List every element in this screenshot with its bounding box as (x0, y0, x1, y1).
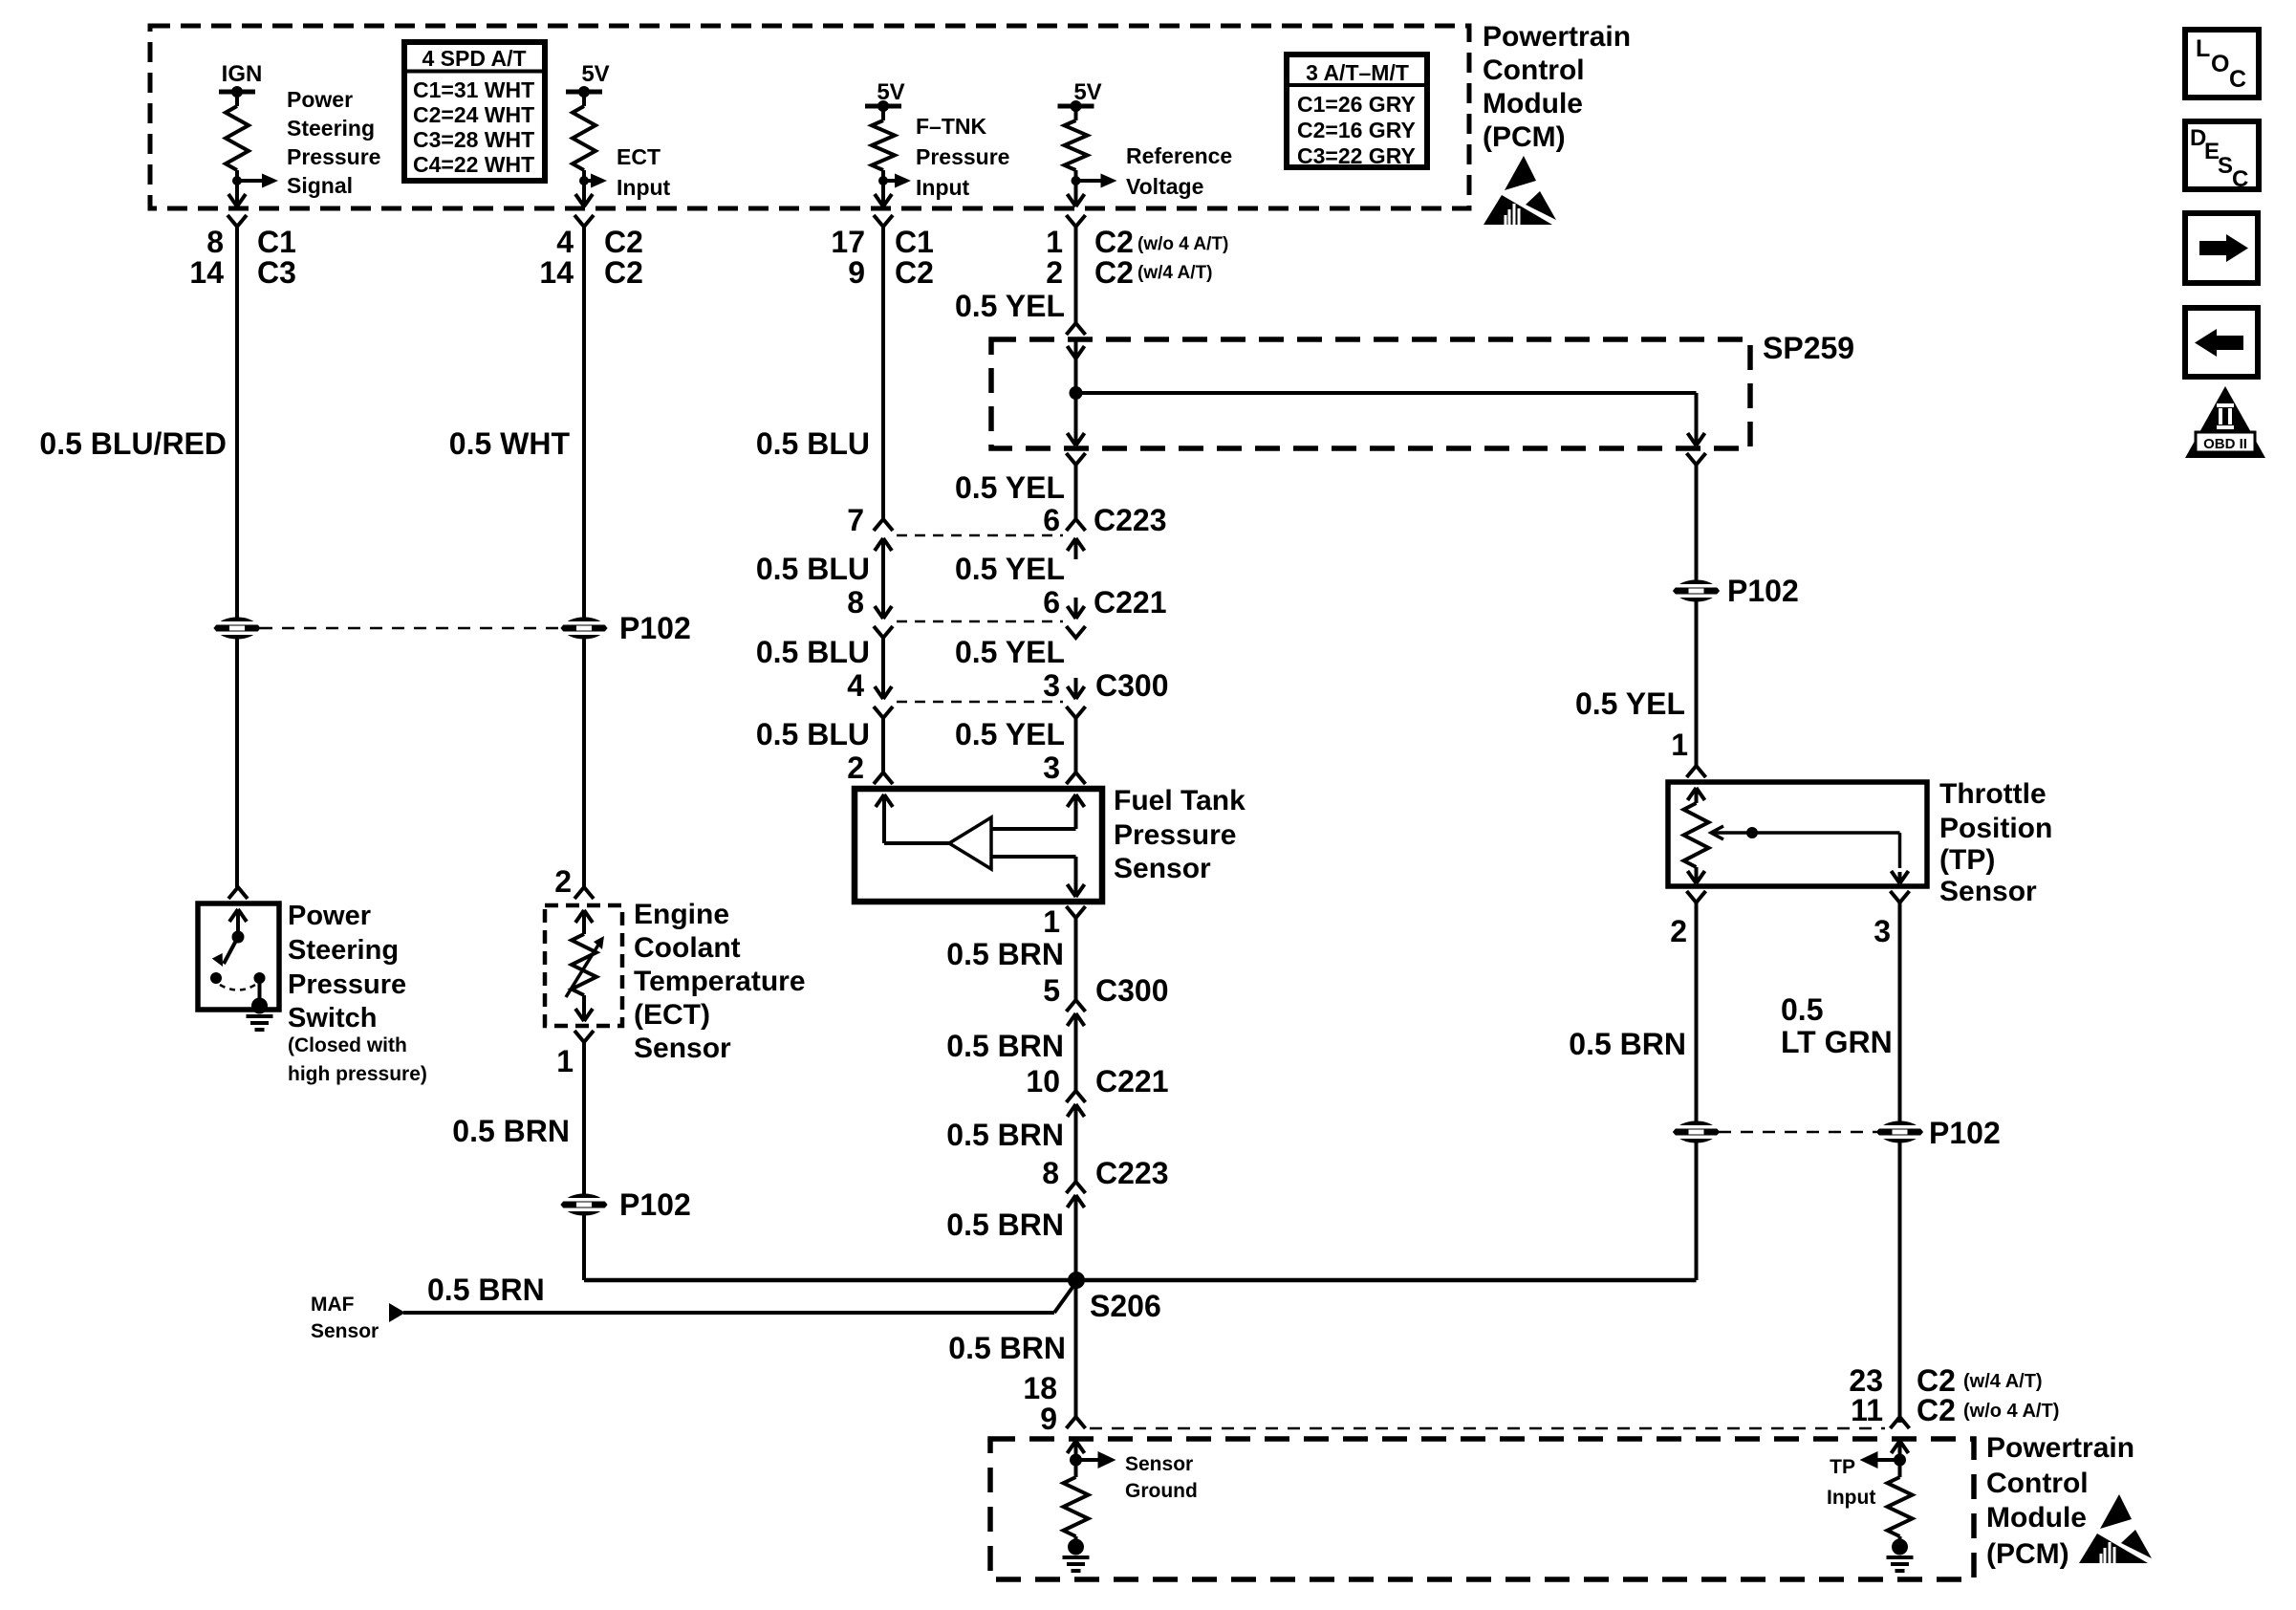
svg-text:Sensor: Sensor (634, 1033, 731, 1064)
wire S206 horizontal bus (584, 1278, 1697, 1283)
TP wiper arrow (1711, 826, 1723, 839)
resistor sensor ground leg (1074, 1460, 1078, 1477)
svg-text:0.5 YEL: 0.5 YEL (955, 470, 1065, 505)
svg-text:0.5 YEL: 0.5 YEL (1575, 686, 1685, 721)
connector C300 crossing (W3/W4) (897, 701, 1063, 704)
svg-text:Powertrain: Powertrain (1483, 21, 1631, 53)
node TP input junction (1894, 1454, 1906, 1467)
connector C223 crossing (center wire) (1067, 1182, 1086, 1193)
label Sensor Ground (1125, 1453, 1198, 1502)
svg-text:1: 1 (556, 1044, 574, 1078)
wire W3 C221 to C300 (881, 638, 885, 699)
label F-TNK Pressure Input (916, 114, 1009, 200)
svg-text:C2: C2 (895, 255, 934, 290)
label Power Steering Pressure Switch (288, 901, 406, 1033)
svg-text:Signal: Signal (287, 173, 353, 198)
svg-text:0.5: 0.5 (1781, 992, 1823, 1027)
connector chevron above PSP switch (228, 887, 248, 899)
svg-text:5: 5 (1043, 973, 1060, 1008)
svg-text:5V: 5V (877, 79, 904, 105)
svg-text:C221: C221 (1094, 585, 1167, 620)
svg-text:0.5 BLU: 0.5 BLU (756, 552, 870, 586)
wire S206 to bottom PCM (sensor ground) (1074, 1280, 1078, 1417)
resistor PCM load W1 PSP (235, 92, 239, 106)
wire W3 C223 to C221 (881, 559, 885, 619)
svg-text:C: C (2229, 66, 2246, 93)
svg-text:2: 2 (847, 751, 864, 785)
svg-text:Reference: Reference (1126, 143, 1232, 168)
arrow W3 F-TNK signal (883, 179, 895, 183)
svg-text:9: 9 (1040, 1402, 1057, 1436)
svg-text:Module: Module (1986, 1502, 2087, 1534)
svg-text:Input: Input (617, 175, 671, 200)
svg-text:1: 1 (1671, 728, 1688, 762)
connector pin arrow W2 ECT at PCM edge (575, 194, 593, 207)
svg-text:C4=22 WHT: C4=22 WHT (413, 152, 534, 177)
wire SP259 to P102 (right branch) (1695, 465, 1699, 580)
svg-text:Position: Position (1939, 813, 2052, 844)
wire W3 F-TNK to PCM edge (881, 181, 885, 196)
connector chevrons above FTP sensor (874, 772, 893, 784)
svg-text:Sensor: Sensor (1114, 853, 1211, 884)
node W2 ECT supply bar (566, 90, 602, 95)
svg-text:C2: C2 (1917, 1393, 1956, 1427)
wire C221 to C223 (center) (1074, 1125, 1078, 1185)
svg-text:Switch: Switch (288, 1003, 377, 1033)
connector chevron above SP259 (1067, 323, 1086, 335)
icon box arrow left (2185, 308, 2258, 377)
svg-text:0.5 BRN: 0.5 BRN (452, 1114, 570, 1148)
svg-text:high pressure): high pressure) (288, 1063, 427, 1085)
wire W2 ECT to PCM edge (582, 181, 586, 196)
ground TP input leg (1898, 1536, 1902, 1539)
ECT arrow top (575, 910, 593, 923)
svg-text:Control: Control (1483, 54, 1585, 86)
connector chevron W4 Reference below PCM (1067, 215, 1086, 227)
svg-text:ECT: ECT (617, 144, 661, 169)
svg-text:Powertrain: Powertrain (1986, 1432, 2134, 1464)
connector chevron below ECT sensor (574, 1031, 594, 1042)
svg-text:9: 9 (848, 255, 865, 290)
arrow W2 ECT signal (584, 179, 591, 183)
svg-text:C1=31 WHT: C1=31 WHT (413, 77, 534, 102)
svg-text:2: 2 (1670, 914, 1687, 948)
svg-text:Power: Power (287, 87, 353, 112)
svg-text:14: 14 (539, 255, 574, 290)
svg-text:14: 14 (189, 255, 224, 290)
svg-text:Steering: Steering (287, 116, 375, 141)
svg-text:C300: C300 (1095, 973, 1169, 1008)
wire W4 Reference to PCM edge (1074, 181, 1078, 196)
connector chevron above TP sensor (1687, 766, 1706, 777)
svg-text:C3=22 GRY: C3=22 GRY (1297, 143, 1416, 168)
TP input leg arrow (1892, 1441, 1909, 1453)
PSP switch right contact (254, 972, 266, 984)
svg-text:C3: C3 (257, 255, 296, 290)
ECT arrow bottom (582, 995, 586, 1021)
connector pin arrow W3 F-TNK at PCM edge (875, 194, 892, 207)
svg-text:C: C (2232, 166, 2248, 192)
node W2 ECT junction (579, 176, 589, 185)
wire TP pin2 P102 to S206 line (1695, 1142, 1699, 1280)
PSP switch pivot contact (210, 972, 222, 984)
wire P102 to TP sensor pin 1 (1695, 601, 1699, 766)
arrow into SP259 (1074, 341, 1078, 346)
wire FTP pin1 down (1074, 918, 1078, 1003)
svg-text:Pressure: Pressure (916, 144, 1009, 169)
svg-text:SP259: SP259 (1763, 331, 1854, 365)
svg-text:4: 4 (556, 225, 574, 259)
svg-text:5V: 5V (1073, 79, 1101, 105)
svg-text:8: 8 (847, 585, 864, 620)
svg-text:1: 1 (1046, 225, 1063, 259)
svg-text:C2: C2 (604, 225, 643, 259)
connector C221 crossing (W3/W4) (897, 620, 1063, 623)
arrow W1 PSP signal (237, 179, 262, 183)
wire TP pin3 to P102 (1898, 903, 1902, 1121)
svg-text:0.5 BLU: 0.5 BLU (756, 426, 870, 461)
svg-text:6: 6 (1043, 503, 1060, 537)
connector P102 on TP pin2 wire (1674, 1121, 1720, 1142)
connector pin arrow W1 PSP at PCM edge (228, 194, 246, 207)
node sensor ground junction (1070, 1454, 1082, 1467)
connector chevron below FTP sensor (1067, 906, 1086, 918)
svg-text:5V: 5V (581, 61, 609, 87)
svg-text:0.5 YEL: 0.5 YEL (955, 289, 1065, 323)
wire MAF branch (403, 1311, 1054, 1315)
arrow to Sensor Ground label (1076, 1458, 1099, 1462)
svg-text:C1=26 GRY: C1=26 GRY (1297, 92, 1416, 117)
TP wiper output wire (1898, 833, 1902, 868)
svg-text:P102: P102 (1727, 574, 1799, 608)
svg-text:Pressure: Pressure (1114, 819, 1236, 851)
svg-text:(PCM): (PCM) (1483, 121, 1566, 153)
svg-text:C221: C221 (1095, 1064, 1169, 1099)
arrow SP259 right branch exit (1688, 424, 1705, 446)
svg-text:Sensor: Sensor (311, 1320, 379, 1342)
Fuel Tank Pressure Sensor box (855, 789, 1102, 902)
svg-text:4: 4 (847, 668, 864, 703)
svg-text:L: L (2196, 35, 2210, 62)
connector box 4 SPD A/T (404, 42, 545, 181)
svg-text:0.5 BLU/RED: 0.5 BLU/RED (39, 426, 227, 461)
svg-text:(w/4 A/T): (w/4 A/T) (1137, 263, 1212, 283)
PSP switch travel arc (dashed) (220, 985, 255, 990)
svg-text:17: 17 (831, 225, 865, 259)
svg-text:(w/o 4 A/T): (w/o 4 A/T) (1137, 234, 1228, 254)
wire W4 PCM to SP259 (1074, 225, 1078, 323)
resistor PCM load W2 ECT (582, 92, 586, 106)
label (Closed with high pressure) (288, 1034, 427, 1085)
svg-text:(w/4 A/T): (w/4 A/T) (1963, 1371, 2043, 1392)
svg-text:MAF: MAF (311, 1294, 355, 1316)
svg-text:Voltage: Voltage (1126, 174, 1203, 199)
svg-text:C2=16 GRY: C2=16 GRY (1297, 118, 1416, 142)
label Fuel Tank Pressure Sensor (1114, 785, 1245, 884)
svg-text:4 SPD A/T: 4 SPD A/T (422, 46, 526, 71)
svg-text:0.5 BLU: 0.5 BLU (756, 635, 870, 669)
connector P102 on W1 (214, 618, 260, 639)
arrow W4 Reference signal (1076, 179, 1101, 183)
node W3 F-TNK supply bar (865, 104, 901, 109)
svg-text:Sensor: Sensor (1125, 1453, 1193, 1475)
node S206 splice (1068, 1272, 1085, 1289)
PCM top dashed box (150, 26, 1469, 208)
svg-text:Steering: Steering (288, 935, 399, 966)
svg-text:0.5 BRN: 0.5 BRN (946, 1118, 1064, 1152)
connector chevron above bottom PCM (left) (1067, 1417, 1086, 1428)
svg-text:3 A/T–M/T: 3 A/T–M/T (1306, 60, 1409, 85)
svg-text:(TP): (TP) (1939, 844, 1995, 876)
arrow SP259 left branch exit (1074, 393, 1078, 424)
svg-text:Input: Input (916, 175, 970, 200)
label Power Steering Pressure Signal (287, 87, 380, 198)
icon OBD II triangle (2185, 386, 2265, 458)
svg-text:LT GRN: LT GRN (1781, 1025, 1893, 1059)
resistor ECT sensor element (572, 934, 596, 995)
svg-text:C2: C2 (1094, 225, 1134, 259)
wire W2 P102 to ECT sensor (582, 639, 586, 887)
wire PSP right contact to ground (258, 978, 262, 1002)
connector chevron W3 F-TNK below PCM (874, 215, 893, 227)
svg-text:2: 2 (554, 864, 572, 899)
svg-text:C1: C1 (257, 225, 296, 259)
wire W2 PCM to P102 (582, 225, 586, 618)
svg-text:Input: Input (1827, 1487, 1875, 1509)
svg-text:P102: P102 (1929, 1116, 2001, 1150)
svg-text:0.5 WHT: 0.5 WHT (449, 426, 571, 461)
connector chevron below SP259 (left) (1067, 453, 1086, 465)
svg-text:C223: C223 (1095, 1156, 1169, 1190)
wire W1 P102 to PSP switch (235, 639, 239, 887)
connector C223 crossing (W3/W4) (897, 534, 1063, 537)
svg-text:Coolant: Coolant (634, 932, 741, 964)
wire W2 ECT to P102 lower (582, 1042, 586, 1194)
svg-text:0.5 BLU: 0.5 BLU (756, 717, 870, 751)
svg-text:3: 3 (1043, 751, 1060, 785)
PSP switch top contact (232, 931, 245, 944)
svg-text:F–TNK: F–TNK (916, 114, 987, 139)
svg-text:TP: TP (1830, 1456, 1855, 1478)
svg-text:0.5 YEL: 0.5 YEL (955, 635, 1065, 669)
node W1 PSP junction (232, 176, 242, 185)
svg-text:C223: C223 (1094, 503, 1167, 537)
svg-text:10: 10 (1026, 1064, 1060, 1099)
svg-text:C3=28 WHT: C3=28 WHT (413, 127, 534, 152)
wire W4 SP259 to C223 (1074, 465, 1078, 519)
PCM bottom dashed box (990, 1439, 1974, 1579)
svg-text:Control: Control (1986, 1468, 2089, 1499)
connector P102 on W2 (561, 618, 607, 639)
connector C221 crossing (center wire) (1067, 1091, 1086, 1102)
svg-text:0.5 BRN: 0.5 BRN (427, 1273, 545, 1307)
svg-text:O: O (2211, 51, 2229, 77)
resistor PCM load W3 F-TNK (881, 106, 885, 120)
connector chevron W2 ECT below PCM (574, 215, 594, 227)
svg-text:Sensor: Sensor (1939, 876, 2037, 907)
wire SP259 branch to right (1076, 391, 1697, 395)
label MAF Sensor (311, 1294, 379, 1342)
connector P102 on TP pin3 wire (1877, 1121, 1923, 1142)
svg-text:Pressure: Pressure (287, 144, 380, 169)
svg-text:P102: P102 (619, 1187, 691, 1222)
PSP switch arrow to top contact (229, 909, 247, 922)
node W1 PSP supply bar (219, 90, 255, 95)
arrow MAF sensor (389, 1303, 405, 1322)
icon box DESC (2185, 121, 2259, 189)
connector chevron above ECT sensor (574, 887, 594, 899)
connector chevron below SP259 (right) (1687, 453, 1706, 465)
svg-text:Power: Power (288, 901, 371, 931)
svg-text:1: 1 (1043, 904, 1060, 939)
connector chevron W1 PSP below PCM (227, 215, 247, 227)
svg-text:Throttle: Throttle (1939, 778, 2047, 810)
connector P102 lower on W2 (561, 1194, 607, 1215)
svg-text:0.5 YEL: 0.5 YEL (955, 552, 1065, 586)
svg-text:(w/o 4 A/T): (w/o 4 A/T) (1963, 1401, 2059, 1422)
svg-text:18: 18 (1023, 1371, 1057, 1405)
FTP right inner wires (991, 827, 1076, 831)
thin dashed link P102 pair (TP) (1719, 1131, 1877, 1134)
wire C223 to S206 (1074, 1216, 1078, 1273)
svg-text:0.5 BRN: 0.5 BRN (1569, 1027, 1686, 1061)
wire W1 PCM to P102 (235, 225, 239, 618)
svg-text:Pressure: Pressure (288, 969, 406, 1000)
connector chevrons below TP sensor (1687, 891, 1706, 903)
svg-text:IGN: IGN (222, 61, 263, 87)
svg-text:(ECT): (ECT) (634, 999, 710, 1031)
sensor ground leg arrow (1068, 1441, 1085, 1453)
wire W1 PSP to PCM edge (235, 181, 239, 196)
label Reference Voltage (1126, 143, 1232, 199)
ESD symbol top PCM (1484, 156, 1556, 225)
label TP Input (1827, 1456, 1875, 1509)
svg-text:C2=24 WHT: C2=24 WHT (413, 102, 534, 127)
svg-text:8: 8 (1042, 1156, 1059, 1190)
svg-text:Temperature: Temperature (634, 966, 806, 997)
connector box 3 A/T-M/T (1287, 54, 1427, 167)
node W4 Reference supply bar (1058, 104, 1094, 109)
svg-text:6: 6 (1043, 585, 1060, 620)
wire TP pin2 to P102 (1695, 903, 1699, 1121)
label 0.5 LT GRN (1781, 992, 1893, 1059)
connector pin arrow W4 Reference at PCM edge (1068, 194, 1085, 207)
svg-text:2: 2 (1046, 255, 1063, 290)
node W3 F-TNK junction (878, 176, 888, 185)
svg-text:Engine: Engine (634, 899, 729, 930)
TP resistor leg (1688, 788, 1705, 800)
FTP left inner wire (876, 794, 893, 807)
svg-text:C2: C2 (1094, 255, 1134, 290)
resistor TP input leg (1898, 1460, 1902, 1477)
svg-text:C300: C300 (1095, 668, 1169, 703)
svg-text:(Closed with: (Closed with (288, 1034, 407, 1056)
svg-text:Ground: Ground (1125, 1480, 1198, 1502)
svg-text:0.5 BRN: 0.5 BRN (946, 1207, 1064, 1242)
PSP switch blade (224, 937, 238, 964)
wire W4 C300 to FTP sensor (1074, 718, 1078, 772)
wire TP pin3 P102 to PCM (1898, 1142, 1902, 1423)
svg-text:Fuel Tank: Fuel Tank (1114, 785, 1245, 816)
label Powertrain Control Module (PCM) bottom right (1986, 1432, 2134, 1570)
splice box SP259 (dashed) (991, 339, 1750, 448)
wire W3 C300 to FTP sensor (881, 718, 885, 772)
node W4 Reference junction (1072, 176, 1081, 185)
svg-text:Module: Module (1483, 88, 1583, 120)
label ECT Input (617, 144, 671, 200)
svg-text:S: S (2218, 153, 2233, 179)
icon box LOC (2185, 30, 2259, 98)
wire W2 P102 to S206 line (582, 1215, 586, 1280)
svg-text:S206: S206 (1090, 1289, 1161, 1323)
thin dashed link P102 pair (W1-W2) (260, 627, 562, 630)
label Throttle Position (TP) Sensor (1939, 778, 2052, 907)
Power Steering Pressure Switch box (198, 903, 279, 1010)
wire W3 PCM to C223 (881, 225, 885, 519)
svg-text:0.5 YEL: 0.5 YEL (955, 717, 1065, 751)
svg-text:C2: C2 (604, 255, 643, 290)
icon box arrow right (2185, 213, 2258, 283)
ground PSP switch (251, 998, 268, 1014)
connector chevron above bottom PCM (right) (1891, 1417, 1910, 1428)
wire C300 to C221 (center) (1074, 1034, 1078, 1094)
svg-text:8: 8 (206, 225, 224, 259)
svg-text:0.5 BRN: 0.5 BRN (948, 1331, 1066, 1365)
svg-text:0.5 BRN: 0.5 BRN (946, 1029, 1064, 1063)
svg-text:3: 3 (1874, 914, 1891, 948)
thin dashed connector line above bottom PCM (1090, 1427, 1885, 1430)
label Powertrain Control Module (PCM) top right (1483, 21, 1631, 153)
ground sensor ground leg (1074, 1536, 1078, 1539)
node SP259 splice (1070, 386, 1083, 400)
op-amp triangle FTP sensor (949, 817, 991, 869)
ECT sensor dashed box (545, 905, 622, 1026)
svg-text:(PCM): (PCM) (1986, 1538, 2069, 1570)
svg-text:P102: P102 (619, 611, 691, 645)
connector C300 crossing (center wire) (1067, 1000, 1086, 1012)
label Engine Coolant Temperature (ECT) Sensor (634, 899, 806, 1064)
svg-text:3: 3 (1043, 668, 1060, 703)
arrow to TP Input label (1877, 1458, 1900, 1462)
svg-text:11: 11 (1851, 1393, 1883, 1427)
ECT variable-resistor arrow (566, 942, 600, 997)
svg-text:C1: C1 (895, 225, 934, 259)
svg-text:0.5 BRN: 0.5 BRN (946, 937, 1064, 971)
svg-text:OBD II: OBD II (2203, 436, 2247, 452)
Throttle Position (TP) Sensor box (1668, 782, 1927, 886)
connector P102 on right branch (1674, 580, 1720, 601)
resistor PCM load W4 Reference (1074, 106, 1078, 120)
ESD symbol bottom PCM (2079, 1494, 2152, 1563)
svg-text:7: 7 (847, 503, 864, 537)
